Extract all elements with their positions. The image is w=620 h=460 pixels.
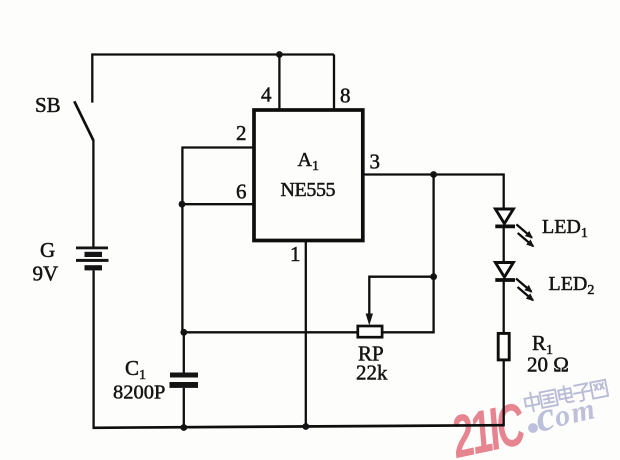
svg-text:20 Ω: 20 Ω xyxy=(527,353,569,377)
中 xyxy=(524,391,541,412)
国 xyxy=(539,390,557,408)
svg-text:8: 8 xyxy=(340,84,351,108)
wire between LEDs xyxy=(503,226,505,263)
node junction C1 bottom xyxy=(180,424,187,431)
wire LED branch vertical top xyxy=(503,174,505,210)
svg-text:8200P: 8200P xyxy=(113,382,165,404)
watermark 21IC logo xyxy=(445,390,531,460)
capacitor C1 xyxy=(170,373,199,388)
svg-text:22k: 22k xyxy=(356,361,388,385)
svg-text:6: 6 xyxy=(236,180,247,204)
svg-text:SB: SB xyxy=(35,93,61,117)
svg-text:9V: 9V xyxy=(33,262,59,286)
wire pin1 drop xyxy=(305,241,307,428)
wire RP left to C1 xyxy=(184,331,357,333)
node junction top rail / pin4 xyxy=(276,51,283,58)
battery G plates xyxy=(76,247,109,271)
wire right vertical pin3 to RP xyxy=(382,175,434,333)
wire switch to battery xyxy=(92,140,94,247)
wire R1 to bottom rail xyxy=(503,360,505,427)
wire bottom rail xyxy=(93,425,504,428)
wire pin6 stub xyxy=(182,203,254,205)
svg-text:4: 4 xyxy=(261,83,272,107)
wire top rail xyxy=(92,55,334,103)
网 xyxy=(590,380,608,399)
wire battery to bottom rail xyxy=(92,270,94,428)
node junction pin1/bottom rail xyxy=(302,423,309,430)
watermark .com script xyxy=(528,423,538,433)
LED LED1 xyxy=(495,209,533,246)
svg-text:1: 1 xyxy=(290,242,301,266)
potentiometer RP body xyxy=(358,326,382,337)
svg-text:3: 3 xyxy=(370,150,381,174)
wire pin4 drop xyxy=(278,55,280,111)
resistor R1 xyxy=(498,333,509,360)
IC A1 NE555 timer box xyxy=(254,110,363,241)
node junction pin6/bus xyxy=(179,201,186,208)
wire pin3 stub to LED branch xyxy=(363,173,504,175)
wire C1 leads xyxy=(183,332,185,372)
wire pin2 stub xyxy=(182,146,254,148)
子 xyxy=(572,383,592,402)
watermark CJK 中国电子网 xyxy=(524,378,609,412)
电 xyxy=(558,385,574,404)
node junction pin3 xyxy=(430,171,437,178)
node junction C1 top xyxy=(180,329,187,336)
wire pin8 drop xyxy=(333,55,335,111)
wire LED2 to R1 xyxy=(503,280,505,334)
svg-text:NE555: NE555 xyxy=(281,179,336,201)
LED LED2 xyxy=(495,263,533,301)
wire left bus vertical xyxy=(181,147,183,333)
svg-text:G: G xyxy=(40,238,55,262)
node junction wiper xyxy=(430,273,437,280)
wire RP wiper xyxy=(369,277,433,314)
switch SB blade xyxy=(74,101,93,140)
svg-text:2: 2 xyxy=(236,121,247,145)
